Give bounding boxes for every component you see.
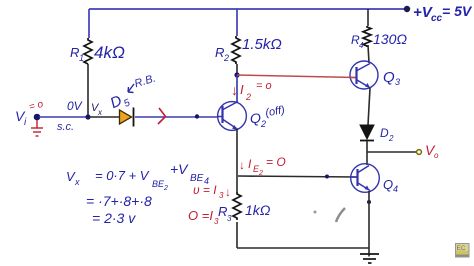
value 1.5k ohm [242,36,282,53]
value 4k ohm [94,43,125,62]
wire Q3 emitter to D2 [368,88,370,125]
wire R3 to bottom rail [236,222,238,248]
label Vi = 0 [15,99,45,128]
svg-text:↓: ↓ [231,82,238,98]
transistor Q2 [217,102,246,131]
label s.c. [57,121,74,133]
wire Vo tap [367,151,417,153]
svg-text:I: I [248,157,252,171]
svg-text:cc: cc [431,13,443,24]
value 130 ohm [373,31,407,47]
wire bottom rail [237,247,369,249]
wire R1 bottom to input node [87,64,89,117]
wire Q2 emitter down [236,129,238,192]
svg-text:2: 2 [245,92,251,102]
svg-text:x: x [74,177,80,187]
label R1 [70,45,84,63]
svg-text:2: 2 [163,185,168,192]
svg-text:R.B.: R.B. [133,73,157,91]
watermark logo [455,243,470,258]
node Vx junction dot [85,114,90,119]
equation = .7+.8+.8 [86,193,152,209]
diode D5 [120,108,134,127]
wire R4 to Q3 collector [368,45,369,63]
svg-text:= 5V: = 5V [442,3,473,19]
label Q2 (off) [250,104,286,129]
wire rail drop to R2 [236,9,238,36]
svg-text:4: 4 [393,184,398,194]
terminal Vi [34,114,41,121]
wire rail drop to R4 [367,9,369,26]
svg-text:Q: Q [383,69,395,86]
svg-text:2: 2 [260,119,266,129]
equation = 2.3 V [92,210,136,226]
junction dot on base wire [195,114,199,118]
wire Q4 emitter to ground [368,191,370,257]
svg-text:o: o [434,151,439,160]
svg-text:↓: ↓ [225,185,231,199]
label Q4 [383,177,398,194]
label Vo [425,142,439,160]
annotation 0 = I3 R3 (red/blue) [188,204,232,226]
wire Q4 base run [238,176,357,177]
svg-text:= 2·3 v: = 2·3 v [92,210,136,226]
svg-text:s.c.: s.c. [57,121,74,133]
junction dot on Q4 emitter [367,200,371,204]
svg-text:= 0·7 + V: = 0·7 + V [95,168,150,183]
svg-text:1.5kΩ: 1.5kΩ [242,36,282,53]
wire node Vx to diode D5 [89,116,119,118]
svg-text:+V: +V [170,161,189,177]
svg-text:υ = I: υ = I [193,183,217,197]
label Q3 [383,69,400,87]
svg-text:Q: Q [250,110,261,126]
svg-text:EC: EC [457,245,466,252]
ground [360,254,379,263]
svg-text:(off): (off) [264,104,286,119]
wire Vo node to Q4 collector [366,152,368,165]
annotation v = I3 (red) [193,183,231,200]
svg-text:130Ω: 130Ω [373,31,407,47]
svg-text:3: 3 [219,191,224,200]
svg-text:O =I: O =I [188,208,213,223]
terminal Vo [417,150,422,155]
svg-text:4kΩ: 4kΩ [94,43,125,62]
svg-text:= o: = o [256,80,272,92]
svg-text:= O: = O [266,155,286,169]
svg-text:2: 2 [388,134,394,143]
svg-text:D: D [108,92,125,112]
wire node to Q2 collector [236,75,238,102]
annotation IE2 = 0 (red) [239,155,286,177]
svg-text:2: 2 [223,53,229,63]
wire rail drop to R1 [88,9,90,38]
svg-text:Q: Q [383,177,393,192]
wire R2 bottom to node [236,64,238,75]
svg-text:0V: 0V [67,99,83,113]
current direction tick (red) on wire [158,108,166,124]
svg-text:x: x [97,108,103,117]
svg-text:↓: ↓ [239,158,245,172]
value 1k ohm [245,202,271,218]
annotation I2 = 0 (red) [231,80,272,102]
junction dot on Q4 base wire [325,175,329,179]
svg-text:R: R [215,45,224,60]
resistor R1 [84,38,92,64]
label +Vcc = 5V [413,3,473,24]
transistor Q3 [350,61,378,89]
svg-text:4: 4 [359,41,364,50]
diode D2 [360,125,374,141]
svg-text:3: 3 [395,77,400,87]
node +Vcc terminal dot [404,6,410,12]
wire (red) collector node to Q3 base [237,75,356,78]
wire D5 to Q2 base [135,116,218,118]
label Vx [91,102,103,117]
label D2 [380,126,394,143]
svg-text:D: D [380,126,389,140]
transistor Q4 [351,164,380,193]
svg-text:R: R [218,204,227,219]
wire Vi to node Vx [39,116,88,118]
stray pen mark [314,208,346,222]
resistor R3 [233,192,241,220]
svg-text:1kΩ: 1kΩ [245,202,271,218]
svg-text:i: i [24,117,27,128]
resistor R2 [232,36,240,64]
label R2 [215,45,229,63]
label R4 [351,33,364,50]
resistor R4 [363,26,371,47]
equation Vx = 0.7 + VBE2 + VBE4 [66,161,209,192]
svg-text:3: 3 [227,214,232,223]
label 0V [67,99,83,113]
node collector junction dot [234,72,239,77]
svg-text:R: R [70,45,79,60]
wire D2 to Vo node [366,141,368,152]
wire top +Vcc rail [89,8,408,10]
annotation R.B. with arrow [133,73,157,91]
svg-text:I: I [240,82,244,97]
label D5 [108,89,133,115]
svg-text:= o: = o [28,99,45,113]
ground at input (red) [31,120,43,136]
svg-text:1: 1 [79,53,84,63]
svg-text:= ·7+·8+·8: = ·7+·8+·8 [86,193,152,209]
